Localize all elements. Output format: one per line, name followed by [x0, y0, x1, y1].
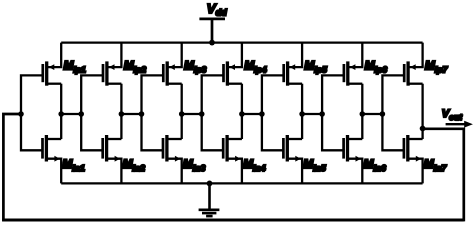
wire gate net stage 2 [81, 75, 104, 150]
junction dot feedback into stage 1 gate [18, 111, 24, 117]
junction dot Vout tap on stage 7 drain [420, 126, 426, 132]
wire Vdd top rail [61, 41, 422, 43]
wire jumper stage 3 output to stage 4 gate [182, 113, 202, 115]
junction dot drain stage 3 [179, 111, 185, 117]
wire drain node stage 3 [181, 84, 183, 139]
junction dot gate stage 4 [199, 111, 205, 117]
wire drain node stage 6 [361, 84, 363, 139]
transistor Mip4 (PMOS) [224, 43, 242, 86]
junction dot gate stage 3 [139, 111, 145, 117]
transistor Min6 (NMOS) [344, 135, 363, 183]
junction dot Vdd on top rail [209, 40, 215, 46]
transistor Min7 (NMOS) [404, 135, 423, 183]
wire gate net stage 1 [21, 75, 44, 150]
wire jumper stage 1 output to stage 2 gate [61, 113, 81, 115]
junction dot ground on source rail [207, 181, 213, 187]
wire gate net stage 3 [142, 75, 165, 150]
junction dot gate stage 7 [380, 111, 386, 117]
transistor Min5 (NMOS) [283, 135, 302, 183]
wire drain node stage 4 [241, 84, 243, 139]
wire drain node stage 7 [421, 84, 423, 139]
junction dot drain stage 2 [119, 111, 125, 117]
wire jumper stage 5 output to stage 6 gate [302, 113, 322, 115]
junction dot gate stage 2 [78, 111, 84, 117]
transistor Min1 (NMOS) [43, 135, 62, 183]
wire jumper stage 4 output to stage 5 gate [242, 113, 262, 115]
wire jumper stage 2 output to stage 3 gate [121, 113, 141, 115]
junction dot drain stage 6 [360, 111, 366, 117]
wire ground source rail [61, 182, 422, 184]
transistor Mip7 (PMOS) [404, 43, 422, 86]
wire gate net stage 7 [382, 75, 405, 150]
node Vout output arrow [446, 123, 466, 125]
junction dot gate stage 6 [319, 111, 325, 117]
junction dot drain stage 1 [58, 111, 64, 117]
transistor Mip6 (PMOS) [344, 43, 362, 86]
junction dot gate stage 5 [259, 111, 265, 117]
wire drain node stage 1 [60, 84, 62, 139]
transistor Min4 (NMOS) [223, 135, 242, 183]
wire gate net stage 6 [322, 75, 345, 150]
transistor Mip3 (PMOS) [163, 43, 181, 86]
transistor Min3 (NMOS) [163, 135, 182, 183]
transistor Min2 (NMOS) [103, 135, 122, 183]
power symbol Vdd [199, 19, 225, 43]
wire drain node stage 2 [120, 84, 122, 139]
wire drain node stage 5 [301, 84, 303, 139]
transistor Mip2 (PMOS) [103, 43, 121, 86]
wire gate net stage 5 [262, 75, 285, 150]
wire jumper stage 6 output to stage 7 gate [362, 113, 382, 115]
transistor Mip5 (PMOS) [284, 43, 302, 86]
transistor Mip1 (PMOS) [43, 43, 61, 86]
wire gate net stage 4 [202, 75, 225, 150]
junction dot drain stage 4 [239, 111, 245, 117]
wire bottom edge thicker overlay [2, 219, 464, 222]
ground [199, 183, 220, 216]
wire output feedback loop (stage 7 drain, right edge, bottom edge, left edge, to stage 1 gate) [3, 114, 463, 220]
junction dot drain stage 5 [299, 111, 305, 117]
